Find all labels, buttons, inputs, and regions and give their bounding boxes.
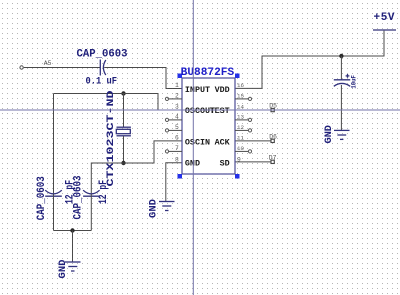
pin 7 stub — [169, 150, 182, 152]
svg-text:INPUT: INPUT — [185, 85, 210, 95]
svg-text:+5V: +5V — [374, 12, 395, 24]
crystal Q1 CTX1023CT-ND — [116, 127, 131, 136]
wire crystal bottom lead — [123, 136, 125, 163]
wire node B to C3 — [91, 163, 123, 193]
ground G3 — [65, 262, 81, 271]
wire pin8 to GND — [166, 163, 182, 202]
svg-text:14: 14 — [237, 104, 244, 111]
svg-text:3: 3 — [175, 104, 179, 111]
svg-text:GND: GND — [185, 158, 200, 168]
IC corner marker top-right — [235, 74, 240, 79]
svg-text:12: 12 — [237, 124, 244, 131]
svg-text:D7: D7 — [269, 155, 277, 162]
svg-text:8: 8 — [175, 156, 179, 163]
wire 10uF bottom lead — [340, 85, 342, 130]
wire pin14 net D5 — [235, 109, 273, 111]
wire caps bottom rail — [54, 230, 92, 232]
svg-text:10uF: 10uF — [351, 75, 358, 89]
wire VDD pin16 to +5V rail — [235, 30, 384, 88]
svg-text:SD: SD — [220, 158, 230, 168]
wire C2 bottom lead — [53, 194, 55, 230]
net end marker D5 — [271, 108, 274, 111]
svg-text:11: 11 — [237, 134, 244, 141]
capacitor C4 10uF polarized — [334, 74, 350, 86]
svg-text:16: 16 — [237, 82, 244, 89]
pin 10 stub — [235, 150, 248, 152]
svg-text:GND: GND — [57, 260, 69, 279]
svg-text:ACK: ACK — [215, 137, 231, 147]
IC corner marker bottom-left — [178, 174, 183, 179]
+5V supply symbol — [373, 29, 396, 31]
svg-text:0.1 uF: 0.1 uF — [86, 77, 118, 88]
junction 10uF tap — [339, 54, 343, 58]
ground G2 — [334, 130, 350, 139]
svg-text:CAP_0603: CAP_0603 — [72, 175, 84, 219]
IC corner marker top-left — [178, 74, 183, 79]
wire C1 to pin 1 — [104, 68, 182, 89]
svg-text:4: 4 — [175, 113, 179, 120]
svg-text:9: 9 — [237, 156, 241, 163]
svg-text:VDD: VDD — [215, 85, 230, 95]
capacitor C1 CAP_0603 0.1uF — [100, 60, 106, 76]
pin 2 stub — [169, 98, 182, 100]
wire crystal top lead — [123, 94, 125, 128]
wire pin11 net D6 — [235, 140, 273, 142]
junction rail — [70, 228, 74, 232]
svg-text:A5: A5 — [44, 60, 52, 67]
IC corner marker bottom-right — [235, 174, 240, 179]
wire rail to GND — [72, 231, 74, 263]
svg-text:15: 15 — [237, 92, 244, 99]
svg-text:OSCIN: OSCIN — [185, 137, 210, 147]
svg-text:1: 1 — [175, 82, 179, 89]
svg-text:CAP_0603: CAP_0603 — [77, 49, 128, 61]
node A junction — [121, 91, 125, 95]
ground G1 — [159, 202, 175, 211]
node B junction — [121, 161, 125, 165]
capacitor C2 CAP_0603 12pF — [45, 190, 62, 196]
svg-text:7: 7 — [175, 145, 179, 152]
svg-text:13: 13 — [237, 113, 244, 120]
svg-text:10: 10 — [237, 145, 244, 152]
wire C3 bottom lead — [90, 194, 92, 230]
IC U1 BU8872FS body — [182, 78, 235, 174]
pin 15 stub — [235, 98, 248, 100]
wire node A horizontal — [54, 94, 183, 111]
pin 13 stub — [235, 119, 248, 121]
wire A5 to C1 — [24, 67, 100, 69]
svg-text:GND: GND — [323, 125, 335, 144]
wire node A down to C2 — [53, 94, 55, 194]
svg-text:6: 6 — [175, 134, 179, 141]
net end marker D6 — [271, 139, 274, 142]
wire 10uF top lead — [340, 56, 342, 80]
pin 12 stub — [235, 129, 248, 131]
wire node B to pin 6 — [124, 141, 183, 163]
capacitor C3 CAP_0603 12pF — [83, 190, 100, 196]
svg-text:TEST: TEST — [210, 106, 230, 116]
pin 5 stub — [169, 129, 182, 131]
svg-text:2: 2 — [175, 92, 179, 99]
svg-text:CTX1023CT-ND: CTX1023CT-ND — [106, 91, 117, 187]
net end marker D7 — [271, 160, 274, 163]
svg-text:BU8872FS: BU8872FS — [181, 67, 235, 79]
frame divider horizontal line — [0, 109, 400, 111]
wire A5 net start circle — [20, 66, 23, 69]
svg-text:12 pF: 12 pF — [98, 180, 110, 204]
svg-text:5: 5 — [175, 124, 179, 131]
pin 4 stub — [169, 119, 182, 121]
svg-text:D6: D6 — [269, 134, 277, 141]
svg-text:GND: GND — [147, 199, 159, 218]
svg-text:D5: D5 — [269, 103, 277, 110]
wire pin9 net D7 — [235, 161, 273, 163]
frame divider vertical line — [192, 0, 194, 295]
svg-text:CAP_0603: CAP_0603 — [36, 176, 48, 220]
